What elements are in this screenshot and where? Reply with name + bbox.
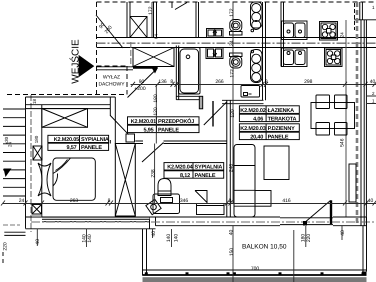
svg-text:40: 40 (35, 239, 41, 245)
svg-text:K2.M20.01: K2.M20.01 (131, 119, 156, 125)
svg-text:K2.M20.05: K2.M20.05 (54, 137, 79, 143)
svg-text:24: 24 (339, 32, 344, 38)
svg-text:ŁAZIENKA: ŁAZIENKA (268, 108, 295, 114)
svg-text:PANELE: PANELE (195, 173, 216, 179)
svg-text:416: 416 (282, 198, 291, 204)
svg-text:180: 180 (34, 135, 39, 143)
svg-text:P.DZIENNY: P.DZIENNY (268, 126, 296, 132)
svg-text:40: 40 (229, 230, 235, 236)
svg-text:PANELE: PANELE (158, 127, 179, 133)
svg-text:220: 220 (3, 242, 9, 251)
svg-text:8: 8 (170, 79, 173, 85)
svg-text:40: 40 (368, 198, 374, 204)
svg-text:346: 346 (180, 198, 189, 204)
svg-text:120: 120 (230, 109, 236, 118)
svg-text:220: 220 (306, 234, 312, 243)
svg-text:40: 40 (370, 79, 376, 85)
svg-text:64: 64 (154, 34, 159, 40)
svg-text:PRZEDPOKÓJ: PRZEDPOKÓJ (158, 118, 194, 125)
svg-text:172: 172 (229, 8, 235, 17)
svg-text:90: 90 (139, 79, 145, 85)
svg-text:SYPIALNIA: SYPIALNIA (195, 165, 223, 171)
svg-text:8: 8 (265, 79, 268, 85)
svg-text:140: 140 (166, 234, 172, 243)
svg-text:18: 18 (32, 99, 37, 105)
svg-text:5,95: 5,95 (144, 127, 154, 133)
svg-text:4,06: 4,06 (253, 116, 263, 122)
svg-text:40: 40 (340, 230, 346, 236)
svg-text:20,40: 20,40 (250, 134, 263, 140)
svg-text:K2.M20.03: K2.M20.03 (240, 126, 265, 132)
svg-text:8,12: 8,12 (180, 173, 190, 179)
svg-text:40: 40 (151, 231, 157, 237)
svg-text:8: 8 (229, 198, 232, 204)
svg-text:546: 546 (340, 138, 346, 147)
svg-text:WYŁAZ: WYŁAZ (103, 75, 120, 81)
svg-text:150: 150 (229, 248, 235, 257)
svg-text:266: 266 (215, 79, 224, 85)
svg-text:24: 24 (19, 198, 25, 204)
svg-text:172: 172 (148, 6, 154, 15)
svg-text:SYPIALNIA: SYPIALNIA (81, 137, 109, 143)
svg-text:172: 172 (230, 69, 236, 78)
svg-text:180: 180 (153, 94, 159, 103)
svg-text:246: 246 (229, 164, 235, 173)
svg-text:140: 140 (87, 234, 93, 243)
svg-text:9,57: 9,57 (67, 145, 77, 151)
svg-text:DACHOWY: DACHOWY (98, 82, 125, 88)
svg-text:238: 238 (151, 169, 157, 178)
svg-text:136: 136 (158, 79, 167, 85)
svg-text:140: 140 (173, 234, 179, 243)
svg-text:K2.M20.04: K2.M20.04 (167, 165, 193, 171)
svg-text:8: 8 (108, 198, 111, 204)
svg-text:24: 24 (229, 40, 235, 46)
svg-text:24: 24 (8, 142, 13, 148)
svg-text:120: 120 (153, 107, 159, 116)
svg-text:263: 263 (70, 198, 79, 204)
svg-text:700: 700 (251, 266, 260, 272)
svg-text:298: 298 (304, 79, 313, 85)
svg-text:K2.M20.02: K2.M20.02 (240, 108, 265, 114)
svg-text:+200: +200 (134, 86, 145, 92)
svg-text:PANELE: PANELE (81, 145, 102, 151)
svg-text:BALKON 10,50: BALKON 10,50 (242, 244, 287, 251)
svg-text:TERAKOTA: TERAKOTA (268, 116, 297, 122)
svg-text:PANELE: PANELE (268, 134, 289, 140)
